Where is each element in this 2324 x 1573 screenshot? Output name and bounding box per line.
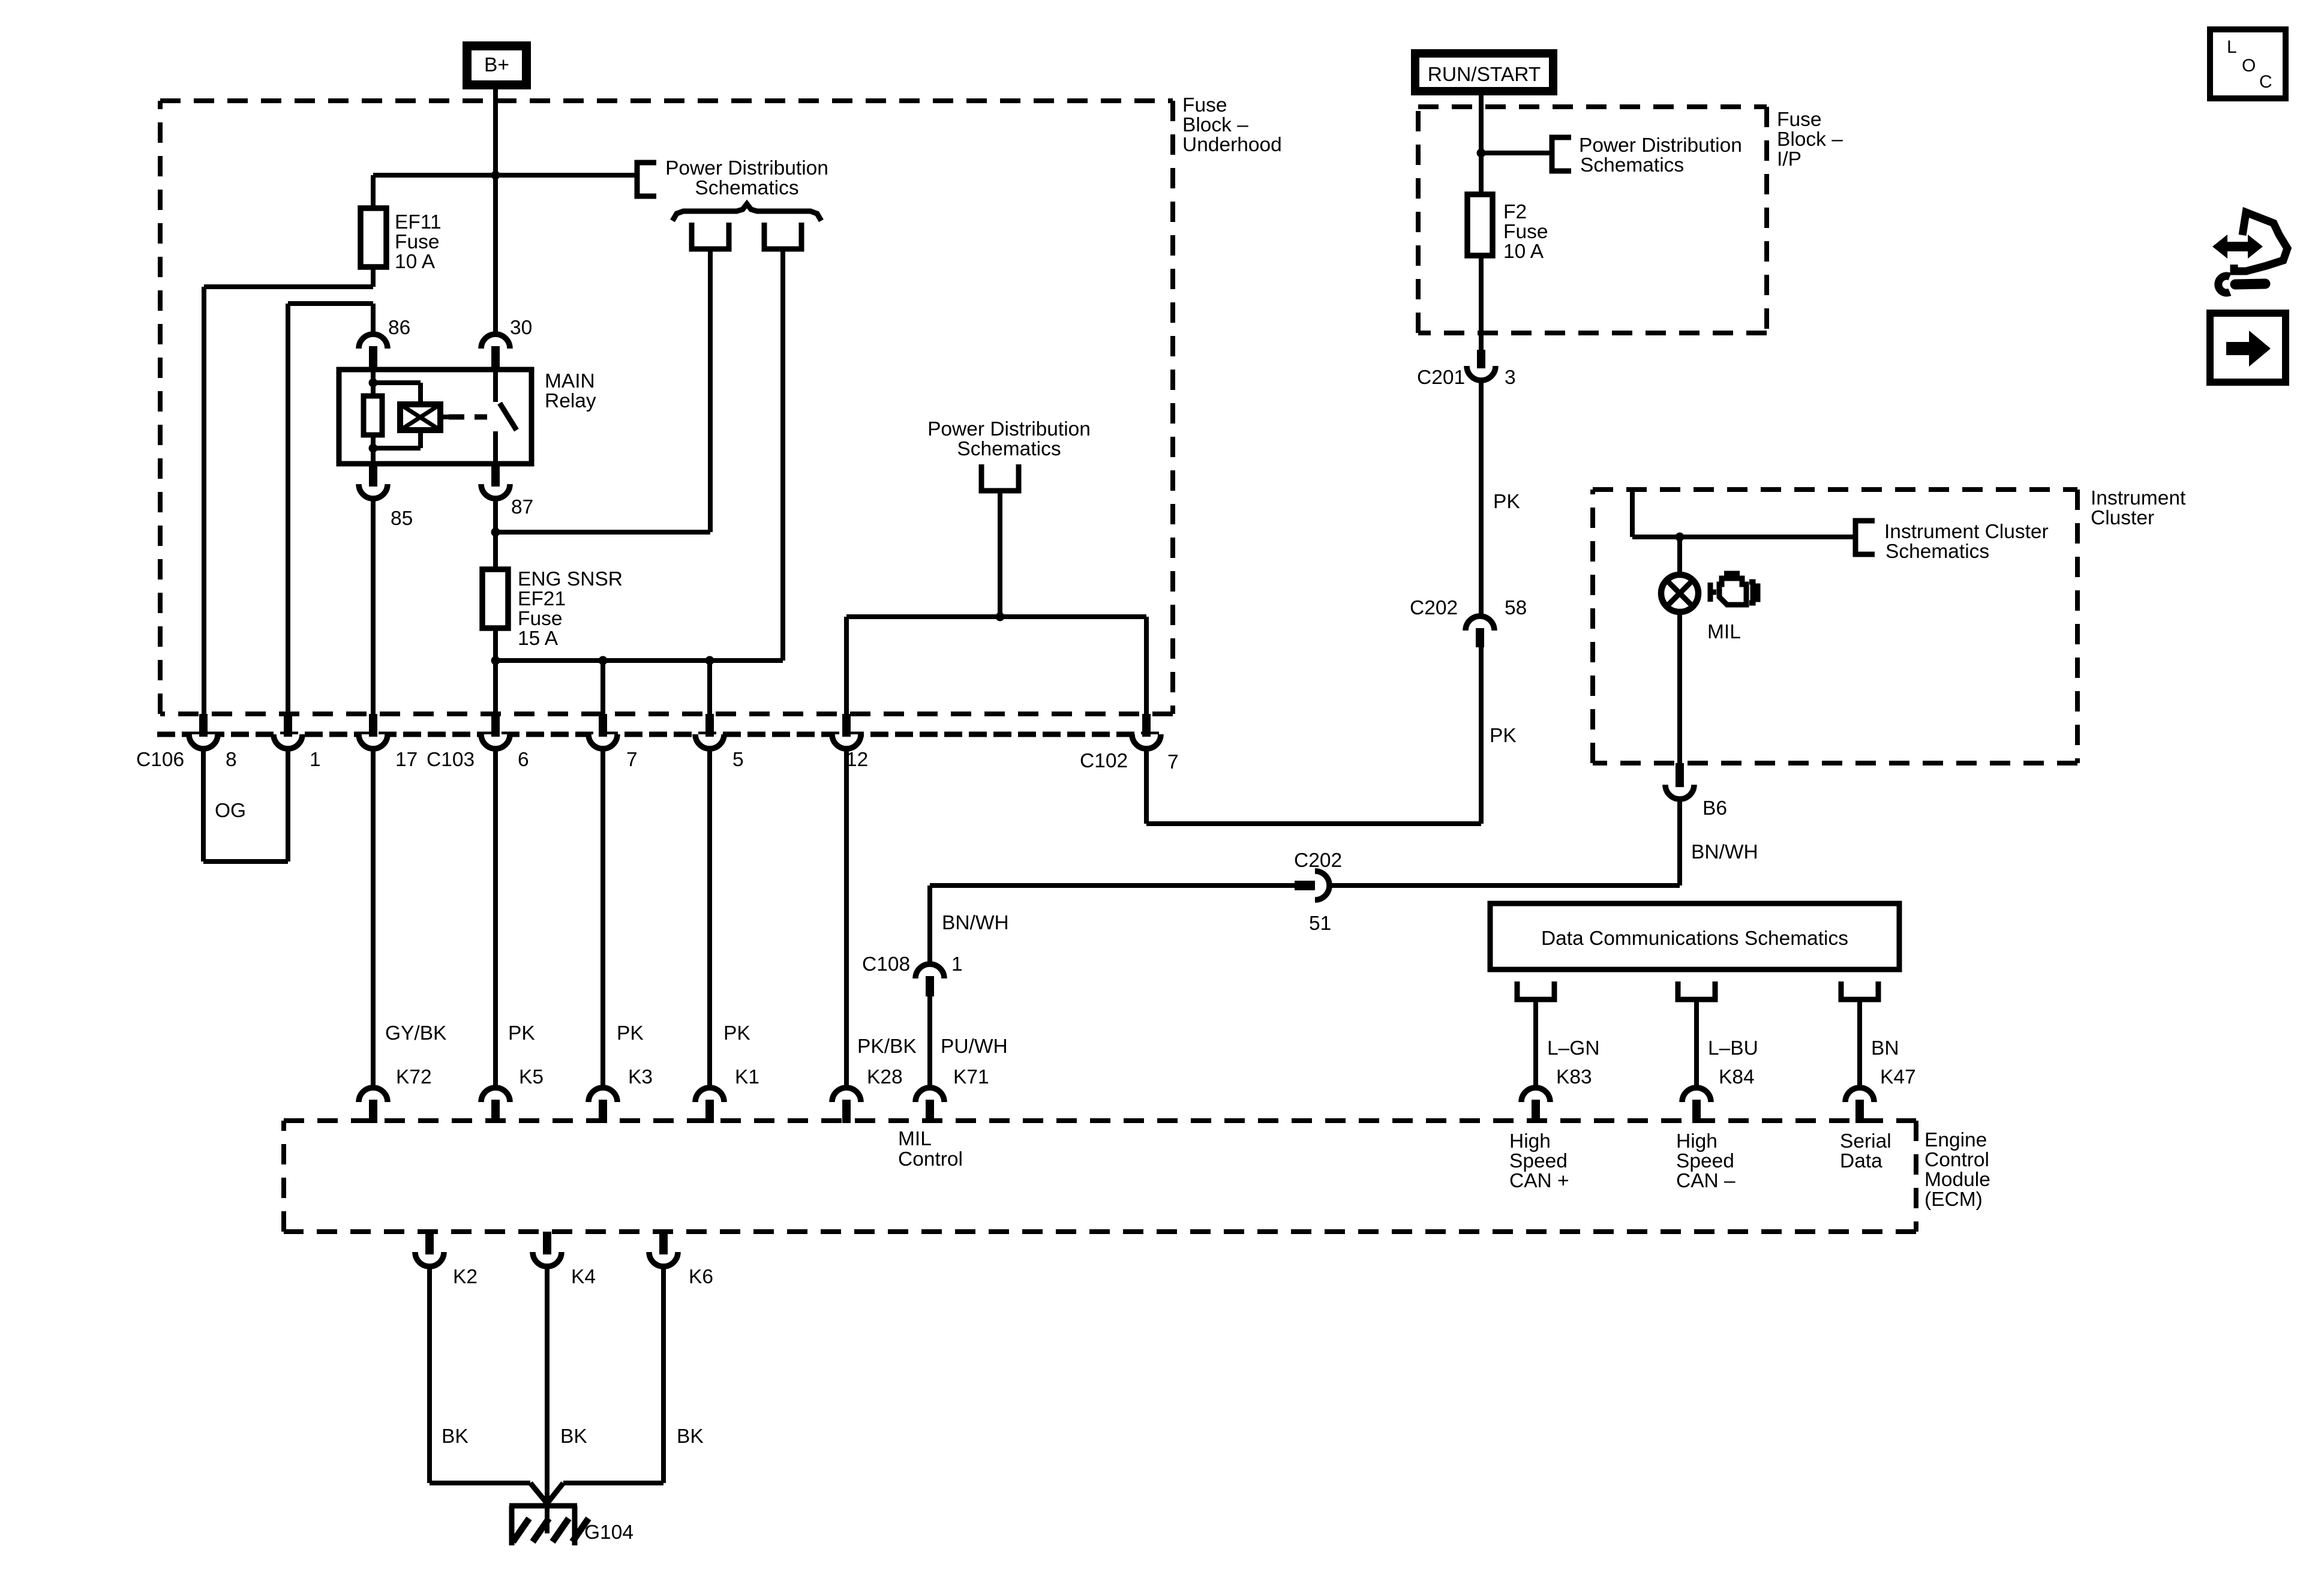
svg-text:K71: K71: [953, 1066, 989, 1088]
svg-text:PU/WH: PU/WH: [941, 1035, 1008, 1058]
svg-text:58: 58: [1505, 597, 1527, 619]
svg-text:PK: PK: [1493, 491, 1520, 513]
svg-text:ENG SNSR: ENG SNSR: [518, 568, 623, 590]
svg-text:K84: K84: [1719, 1066, 1755, 1088]
svg-text:CAN +: CAN +: [1509, 1170, 1569, 1192]
svg-text:Power Distribution: Power Distribution: [927, 418, 1091, 440]
svg-text:86: 86: [388, 317, 410, 339]
svg-text:10 A: 10 A: [395, 251, 436, 273]
svg-text:C202: C202: [1410, 597, 1458, 619]
svg-text:Speed: Speed: [1676, 1150, 1734, 1172]
svg-text:Instrument: Instrument: [2091, 487, 2186, 509]
svg-text:87: 87: [511, 496, 533, 518]
svg-text:Engine: Engine: [1924, 1129, 1987, 1151]
svg-text:Schematics: Schematics: [695, 177, 798, 199]
svg-text:BN: BN: [1871, 1037, 1899, 1059]
svg-text:K72: K72: [396, 1066, 432, 1088]
svg-text:Schematics: Schematics: [957, 438, 1061, 460]
svg-text:OG: OG: [215, 800, 246, 822]
svg-text:BK: BK: [560, 1425, 587, 1448]
svg-text:15 A: 15 A: [518, 628, 559, 650]
svg-text:BN/WH: BN/WH: [942, 912, 1009, 934]
svg-text:PK: PK: [723, 1022, 750, 1044]
svg-text:7: 7: [626, 749, 638, 771]
svg-text:12: 12: [846, 749, 868, 771]
svg-text:Power Distribution: Power Distribution: [1579, 134, 1742, 157]
svg-text:F2: F2: [1503, 201, 1527, 223]
svg-text:BK: BK: [442, 1425, 469, 1448]
svg-text:I/P: I/P: [1777, 148, 1801, 170]
svg-text:Block –: Block –: [1182, 114, 1248, 136]
svg-text:85: 85: [391, 508, 413, 530]
svg-text:30: 30: [510, 317, 532, 339]
svg-text:G104: G104: [584, 1521, 633, 1544]
svg-text:CAN –: CAN –: [1676, 1170, 1736, 1192]
svg-text:MAIN: MAIN: [545, 370, 595, 392]
svg-text:Power Distribution: Power Distribution: [665, 157, 828, 179]
svg-text:C202: C202: [1294, 849, 1342, 872]
svg-text:High: High: [1676, 1130, 1718, 1152]
svg-text:1: 1: [951, 953, 963, 975]
svg-text:EF21: EF21: [518, 588, 566, 610]
svg-text:Data Communications Schematics: Data Communications Schematics: [1541, 927, 1848, 950]
svg-text:Block –: Block –: [1777, 128, 1843, 151]
svg-text:17: 17: [395, 749, 418, 771]
svg-text:C106: C106: [136, 749, 184, 771]
svg-text:3: 3: [1505, 367, 1516, 389]
svg-text:Fuse: Fuse: [1503, 221, 1548, 243]
svg-text:C: C: [2259, 72, 2272, 92]
svg-text:L–GN: L–GN: [1547, 1037, 1600, 1059]
svg-text:Data: Data: [1840, 1150, 1882, 1172]
svg-text:Schematics: Schematics: [1580, 154, 1684, 176]
svg-text:K47: K47: [1880, 1066, 1916, 1088]
svg-text:C201: C201: [1417, 367, 1465, 389]
svg-text:Instrument Cluster: Instrument Cluster: [1884, 521, 2049, 543]
svg-text:MIL: MIL: [898, 1128, 932, 1150]
svg-text:Control: Control: [1924, 1149, 1989, 1171]
svg-text:K2: K2: [453, 1266, 478, 1288]
svg-text:High: High: [1509, 1130, 1551, 1152]
svg-text:5: 5: [732, 749, 744, 771]
svg-text:K6: K6: [689, 1266, 713, 1288]
svg-text:K83: K83: [1556, 1066, 1592, 1088]
svg-text:RUN/START: RUN/START: [1428, 64, 1541, 86]
svg-text:PK: PK: [508, 1022, 535, 1044]
svg-text:EF11: EF11: [395, 211, 442, 233]
svg-text:Relay: Relay: [545, 390, 596, 412]
svg-text:K28: K28: [867, 1066, 903, 1088]
svg-text:C103: C103: [427, 749, 475, 771]
svg-text:Underhood: Underhood: [1182, 134, 1282, 156]
svg-text:PK/BK: PK/BK: [857, 1035, 917, 1058]
svg-text:Schematics: Schematics: [1885, 541, 1989, 563]
svg-text:L: L: [2227, 37, 2237, 57]
svg-text:(ECM): (ECM): [1924, 1188, 1983, 1211]
svg-text:8: 8: [226, 749, 237, 771]
svg-text:O: O: [2242, 56, 2256, 76]
svg-text:K4: K4: [571, 1266, 596, 1288]
svg-text:Fuse: Fuse: [1777, 109, 1821, 131]
svg-text:1: 1: [310, 749, 321, 771]
svg-text:GY/BK: GY/BK: [385, 1022, 446, 1044]
svg-text:PK: PK: [617, 1022, 644, 1044]
svg-text:BK: BK: [677, 1425, 704, 1448]
svg-text:Fuse: Fuse: [1182, 94, 1227, 116]
svg-text:B+: B+: [484, 54, 509, 76]
svg-text:BN/WH: BN/WH: [1691, 841, 1758, 863]
svg-text:10 A: 10 A: [1503, 241, 1544, 263]
svg-text:PK: PK: [1490, 725, 1517, 747]
svg-text:C102: C102: [1080, 750, 1128, 772]
svg-text:Control: Control: [898, 1148, 963, 1170]
svg-text:K5: K5: [519, 1066, 544, 1088]
svg-text:Module: Module: [1924, 1169, 1990, 1191]
svg-text:K3: K3: [628, 1066, 653, 1088]
svg-text:L–BU: L–BU: [1708, 1037, 1758, 1059]
svg-text:51: 51: [1309, 912, 1331, 935]
svg-text:Cluster: Cluster: [2091, 507, 2154, 529]
svg-text:K1: K1: [735, 1066, 759, 1088]
svg-text:MIL: MIL: [1707, 621, 1741, 643]
svg-text:6: 6: [518, 749, 529, 771]
svg-text:Speed: Speed: [1509, 1150, 1568, 1172]
svg-text:Serial: Serial: [1840, 1130, 1891, 1152]
svg-text:C108: C108: [862, 953, 910, 975]
svg-text:7: 7: [1167, 751, 1179, 773]
svg-text:Fuse: Fuse: [395, 231, 439, 253]
svg-text:Fuse: Fuse: [518, 608, 562, 630]
svg-text:B6: B6: [1703, 797, 1727, 819]
